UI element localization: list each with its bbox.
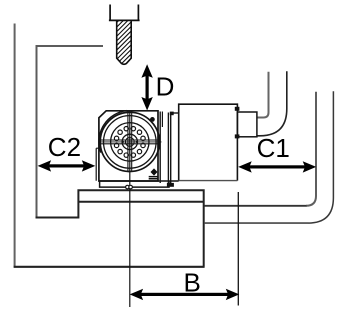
svg-text:D: D xyxy=(156,71,175,101)
svg-text:B: B xyxy=(184,268,201,298)
svg-text:C1: C1 xyxy=(257,133,290,163)
svg-text:C2: C2 xyxy=(48,132,81,162)
